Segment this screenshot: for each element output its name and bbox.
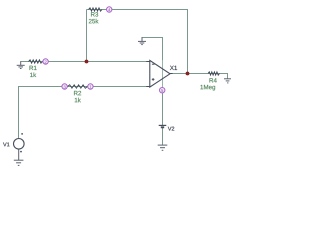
label R3 (91, 12, 98, 16)
label V1 (3, 143, 9, 147)
label R4 (210, 78, 217, 82)
node circle 4 (R3 out) (107, 7, 112, 12)
label V2 (168, 127, 174, 131)
op-amp input/output pin leads (146, 62, 172, 87)
junction node dot at R1/R3 (85, 60, 89, 64)
wire output row (170, 74, 228, 79)
resistor R3 (89, 8, 103, 11)
label X1 (170, 66, 177, 70)
wire R3 top row (87, 10, 188, 74)
node circle 1 (R2 right) (88, 84, 93, 89)
label 1k (R2) (75, 98, 81, 102)
ground under V1 (14, 149, 24, 165)
wire opamp bottom power to V2 (162, 87, 164, 144)
op-amp minus mark (152, 63, 155, 65)
wire R3 feed vertical (86, 10, 88, 62)
label 1k (R1) (30, 73, 36, 77)
resistor R1 (29, 60, 43, 63)
label R2 (74, 91, 81, 95)
wire opamp power through triangle (faint) (162, 60, 164, 87)
source V2 battery (159, 124, 167, 126)
wire opamp top power from ground (142, 38, 163, 61)
op-amp plus mark (152, 78, 155, 81)
op-amp X1 triangle (150, 60, 170, 87)
junction node dot at output/R3 (186, 72, 190, 76)
label R1 (30, 66, 37, 70)
resistor R2 (68, 85, 88, 88)
resistor R4 (208, 72, 220, 75)
node circle 2 (R1 out) (43, 59, 48, 64)
node circle 3 (R2 left) (62, 84, 67, 89)
ground top middle (opamp V+) (138, 37, 146, 44)
node circle 5 (opamp V-) (160, 88, 165, 93)
ground under V2 (158, 145, 168, 150)
label 1Meg (R4) (200, 85, 215, 91)
ground at R1 left (17, 61, 25, 68)
source V1 (13, 139, 24, 150)
wire R1 row: ground corner to opamp minus input (21, 61, 150, 63)
label 25k (R3) (89, 19, 99, 24)
wire R2 row: V1 riser and row to opamp plus input (19, 87, 150, 139)
ground at R4 right (224, 79, 231, 83)
